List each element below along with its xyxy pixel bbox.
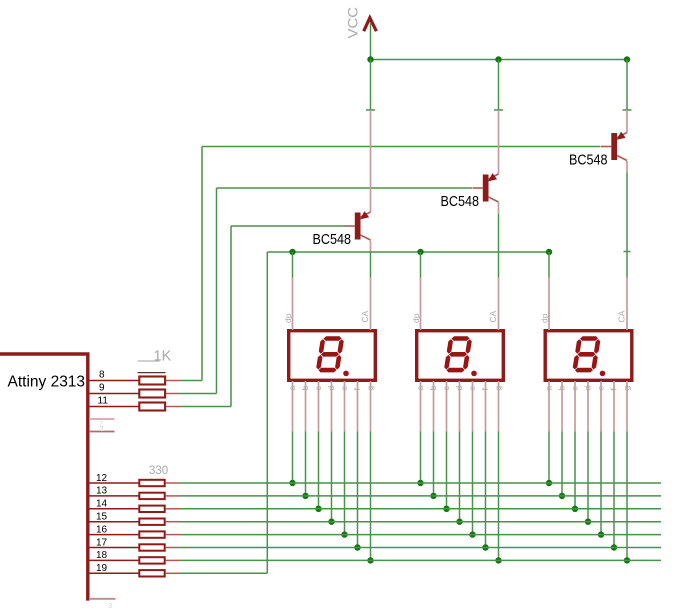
wire segment c of LED3 to bus row xyxy=(574,432,576,509)
wire bus row segment c (pin 14) xyxy=(180,508,662,510)
pin line (emitter of Q2) xyxy=(498,203,500,215)
junction segment c of LED3 xyxy=(572,506,578,512)
pin g of LED3 xyxy=(626,381,628,432)
7-segment display LED3 box xyxy=(545,331,632,381)
wire xyxy=(165,547,179,549)
pin c of LED2 xyxy=(446,381,448,432)
junction VCC rail / Q2 column xyxy=(495,56,501,62)
svg-text:dp: dp xyxy=(283,313,293,323)
IC pin 8 xyxy=(89,380,139,382)
faded IC pin stub (unused pin) xyxy=(89,418,115,420)
svg-text:e: e xyxy=(339,386,349,391)
svg-text:d: d xyxy=(454,386,464,391)
svg-text:2: 2 xyxy=(100,424,104,433)
transistor Q1 BC548 xyxy=(345,211,371,240)
transistor Q2 BC548 xyxy=(473,173,499,202)
junction segment f of LED1 xyxy=(354,544,360,550)
pin dp of LED3 xyxy=(548,278,550,331)
wire segment a of LED2 to bus row xyxy=(420,432,422,484)
svg-text:9: 9 xyxy=(99,383,105,394)
wire base net to Q1 xyxy=(231,225,345,227)
faded IC pin stub (unused pin) xyxy=(89,431,115,433)
wire segment f of LED3 to bus row xyxy=(613,432,615,548)
pin b of LED3 xyxy=(561,381,563,432)
resistor R5 330 (pin 13) xyxy=(139,493,164,499)
wire segment e of LED3 to bus row xyxy=(600,432,602,535)
wire segment d of LED1 to bus row xyxy=(331,432,333,522)
wire segment a of LED3 to bus row xyxy=(548,432,550,484)
wire end tick xyxy=(366,109,375,111)
wire xyxy=(165,482,179,484)
pin f of LED1 xyxy=(357,381,359,432)
faded IC pin stub (bottom, unused) xyxy=(89,598,116,600)
pin line (collector of Q3) xyxy=(626,110,628,133)
wire segment b of LED3 to bus row xyxy=(561,432,563,496)
pin dp of LED2 xyxy=(420,278,422,331)
svg-text:3: 3 xyxy=(108,601,112,610)
wire bus row segment f (pin 17) xyxy=(180,547,662,549)
junction segment e of LED1 xyxy=(341,531,347,537)
svg-text:g: g xyxy=(622,386,632,391)
svg-text:g: g xyxy=(493,386,503,391)
wire VCC rail xyxy=(371,59,628,61)
wire segment f of LED1 to bus row xyxy=(357,432,359,548)
wire base net to Q3 xyxy=(202,146,601,148)
wire segment g of LED1 to bus row xyxy=(370,432,372,561)
svg-text:Attiny 2313: Attiny 2313 xyxy=(8,374,86,391)
svg-text:CA: CA xyxy=(617,310,627,322)
decimal point of LED2 xyxy=(471,371,477,377)
resistor R8 330 (pin 16) xyxy=(139,531,164,537)
svg-text:BC548: BC548 xyxy=(569,153,608,169)
pin line (collector of Q2) xyxy=(498,110,500,174)
IC pin 15 xyxy=(89,521,139,523)
junction segment d of LED3 xyxy=(585,519,591,525)
wire end tick xyxy=(494,109,503,111)
junction segment g of LED3 xyxy=(624,557,630,563)
pin a of LED1 xyxy=(292,381,294,432)
wire dp rail to display dp pin xyxy=(548,252,550,278)
pin d of LED3 xyxy=(587,381,589,432)
svg-text:18: 18 xyxy=(96,550,108,561)
wire dp bus rail xyxy=(267,251,549,253)
wire segment c of LED1 to bus row xyxy=(318,432,320,509)
wire segment e of LED1 to bus row xyxy=(344,432,346,535)
junction segment b of LED2 xyxy=(430,493,436,499)
pin CA of LED3 xyxy=(626,278,628,331)
digit 8 of LED3 xyxy=(572,336,601,372)
wire rail down to Q3 collector xyxy=(626,60,628,111)
junction segment a of LED2 xyxy=(417,480,423,486)
wire xyxy=(165,572,179,574)
IC pin 14 xyxy=(89,508,139,510)
resistor R7 330 (pin 15) xyxy=(139,519,164,525)
wire xyxy=(165,534,179,536)
VCC supply symbol (arrow) xyxy=(364,18,377,31)
pin f of LED3 xyxy=(613,381,615,432)
pin e of LED1 xyxy=(344,381,346,432)
junction segment d of LED2 xyxy=(456,519,462,525)
svg-text:17: 17 xyxy=(96,537,108,548)
wire bus row segment g (pin 18) xyxy=(180,559,662,561)
wire segment c of LED2 to bus row xyxy=(446,432,448,509)
wire xyxy=(165,495,179,497)
svg-text:e: e xyxy=(467,386,477,391)
decimal point of LED3 xyxy=(600,371,606,377)
junction dp rail / display3 dp xyxy=(546,249,552,255)
pin d of LED2 xyxy=(459,381,461,432)
wire Q1 emitter to display CA xyxy=(370,252,372,278)
IC pin 19 xyxy=(89,572,139,574)
wire rail down to Q2 collector xyxy=(498,60,500,111)
dark line above resistor R1 xyxy=(138,372,166,374)
junction segment g of LED2 xyxy=(495,557,501,563)
wire net pin9 to transistor base (horizontal from resistor) xyxy=(180,393,217,395)
resistor R3 1K (pin 11) xyxy=(139,403,165,411)
wire base net to Q2 xyxy=(217,187,473,189)
wire xyxy=(166,393,180,395)
wire (vertical up) xyxy=(230,226,232,407)
wire net pin11 to transistor base (horizontal from resistor) xyxy=(180,406,232,408)
digit 8 of LED1 xyxy=(315,336,344,372)
svg-text:1K: 1K xyxy=(154,349,172,365)
junction segment e of LED2 xyxy=(469,531,475,537)
pin CA of LED2 xyxy=(498,278,500,331)
junction segment b of LED3 xyxy=(559,493,565,499)
wire segment g of LED3 to bus row xyxy=(626,432,628,561)
svg-text:16: 16 xyxy=(96,524,108,535)
wire xyxy=(165,559,179,561)
wire xyxy=(165,508,179,510)
pin b of LED2 xyxy=(433,381,435,432)
svg-text:CA: CA xyxy=(360,310,370,322)
pin e of LED2 xyxy=(472,381,474,432)
junction dp rail / display2 dp xyxy=(417,249,423,255)
wire dp rail to display dp pin xyxy=(292,252,294,278)
svg-text:15: 15 xyxy=(96,512,108,523)
pin CA of LED1 xyxy=(370,278,372,331)
junction segment e of LED3 xyxy=(598,531,604,537)
pin c of LED3 xyxy=(574,381,576,432)
transistor Q3 BC548 xyxy=(601,132,627,161)
svg-text:dp: dp xyxy=(411,313,421,323)
wire segment d of LED3 to bus row xyxy=(587,432,589,522)
IC pin 17 xyxy=(89,547,139,549)
wire bus row segment b (pin 13) xyxy=(180,495,662,497)
pin a of LED3 xyxy=(548,381,550,432)
7-segment display LED2 box xyxy=(417,331,504,381)
IC U1 Attiny 2313 body xyxy=(0,354,88,601)
wire segment b of LED2 to bus row xyxy=(433,432,435,496)
wire xyxy=(166,406,180,408)
svg-text:CA: CA xyxy=(488,310,498,322)
wire rail down to Q1 collector xyxy=(370,60,372,111)
svg-text:VCC: VCC xyxy=(346,7,361,39)
wire end tick on Q3 emitter net xyxy=(624,251,631,253)
IC pin 18 xyxy=(89,559,139,561)
svg-text:g: g xyxy=(365,386,375,391)
pin b of LED1 xyxy=(305,381,307,432)
svg-text:dp: dp xyxy=(540,313,550,323)
wire end tick xyxy=(623,109,632,111)
wire dp bus vertical xyxy=(266,252,268,573)
svg-text:a: a xyxy=(287,386,297,391)
pin c of LED1 xyxy=(318,381,320,432)
pin line (emitter of Q1) xyxy=(370,241,372,253)
IC pin 11 xyxy=(89,406,139,408)
wire bus row dp (pin 19) xyxy=(180,572,268,574)
wire xyxy=(165,521,179,523)
pin a of LED2 xyxy=(420,381,422,432)
pin dp of LED1 xyxy=(292,278,294,331)
junction segment d of LED1 xyxy=(328,519,334,525)
junction segment a of LED3 xyxy=(546,480,552,486)
pin line (emitter of Q3) xyxy=(626,161,628,173)
wire segment g of LED2 to bus row xyxy=(498,432,500,561)
svg-text:19: 19 xyxy=(96,563,108,574)
wire segment b of LED1 to bus row xyxy=(305,432,307,496)
resistor R9 330 (pin 17) xyxy=(139,544,164,550)
pin line (collector of Q1) xyxy=(370,110,372,212)
wire dp rail to display dp pin xyxy=(420,252,422,278)
gray underline for 1K label xyxy=(138,360,160,362)
svg-text:BC548: BC548 xyxy=(313,232,352,248)
wire segment e of LED2 to bus row xyxy=(472,432,474,535)
decimal point of LED1 xyxy=(343,371,349,377)
pin g of LED1 xyxy=(370,381,372,432)
svg-text:8: 8 xyxy=(99,370,105,381)
junction dp rail / display1 dp xyxy=(289,249,295,255)
wire xyxy=(166,380,180,382)
junction VCC rail / Q1 column xyxy=(367,56,373,62)
wire VCC to rail xyxy=(370,22,372,60)
junction VCC rail / Q3 column xyxy=(624,56,630,62)
wire (vertical up) xyxy=(201,147,203,381)
junction segment c of LED1 xyxy=(315,506,321,512)
svg-text:330: 330 xyxy=(149,465,168,477)
pin e of LED3 xyxy=(600,381,602,432)
resistor R6 330 (pin 14) xyxy=(139,506,164,512)
IC pin 13 xyxy=(89,495,139,497)
wire Q2 emitter to display CA xyxy=(498,214,500,278)
junction segment b of LED1 xyxy=(302,493,308,499)
IC pin 16 xyxy=(89,534,139,536)
pin d of LED1 xyxy=(331,381,333,432)
junction segment f of LED2 xyxy=(482,544,488,550)
svg-text:d: d xyxy=(326,386,336,391)
svg-text:BC548: BC548 xyxy=(441,194,480,210)
junction segment a of LED1 xyxy=(289,480,295,486)
wire bus row segment e (pin 16) xyxy=(180,534,662,536)
resistor R4 330 (pin 12) xyxy=(139,480,164,486)
junction segment f of LED3 xyxy=(611,544,617,550)
digit 8 of LED2 xyxy=(443,336,472,372)
resistor R10 330 (pin 18) xyxy=(139,557,164,563)
wire Q3 emitter to display CA xyxy=(626,173,628,278)
wire (vertical up) xyxy=(216,188,218,394)
pin g of LED2 xyxy=(498,381,500,432)
wire net pin8 to transistor base (horizontal from resistor) xyxy=(180,380,203,382)
wire segment d of LED2 to bus row xyxy=(459,432,461,522)
junction segment g of LED1 xyxy=(367,557,373,563)
svg-text:b: b xyxy=(300,386,310,391)
svg-text:d: d xyxy=(583,386,593,391)
svg-text:14: 14 xyxy=(96,499,108,510)
wire bus row segment d (pin 15) xyxy=(180,521,662,523)
svg-text:13: 13 xyxy=(96,486,108,497)
pin f of LED2 xyxy=(485,381,487,432)
svg-text:e: e xyxy=(596,386,606,391)
7-segment display LED1 box xyxy=(289,331,376,381)
wire segment a of LED1 to bus row xyxy=(292,432,294,484)
svg-text:11: 11 xyxy=(98,396,109,407)
wire segment f of LED2 to bus row xyxy=(485,432,487,548)
resistor R11 330 (pin 19) xyxy=(139,570,164,576)
svg-text:b: b xyxy=(428,386,438,391)
resistor R1 1K (pin 8) xyxy=(139,377,165,385)
svg-text:b: b xyxy=(557,386,567,391)
IC pin 12 xyxy=(89,482,139,484)
resistor R2 1K (pin 9) xyxy=(139,390,165,398)
svg-text:a: a xyxy=(544,386,554,391)
junction segment c of LED2 xyxy=(443,506,449,512)
wire bus row segment a (pin 12) xyxy=(180,482,662,484)
IC pin 9 xyxy=(89,393,139,395)
svg-text:12: 12 xyxy=(96,473,108,484)
svg-text:a: a xyxy=(415,386,425,391)
